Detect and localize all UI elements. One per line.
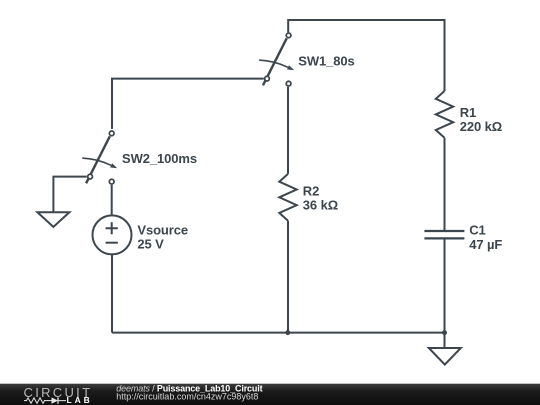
svg-text:R1: R1 [460, 105, 476, 120]
wire from SW1 pivot to SW2 top terminal [112, 79, 264, 129]
wire from SW1 top terminal to R1 top (top net) [288, 20, 444, 91]
svg-text:25 V: 25 V [137, 237, 164, 252]
CircuitLab logo text LAB [67, 395, 93, 405]
ground (left) [37, 212, 69, 227]
CircuitLab logo schematic (resistor + diode) [24, 397, 66, 403]
label R1 [460, 105, 476, 120]
footer url line [116, 391, 258, 401]
wire from SW2 bottom terminal to Vsource top [111, 185, 113, 216]
junction node at C1 / ground / bottom net [442, 330, 447, 335]
value 47 uF [469, 237, 502, 252]
wire from SW2 pivot to left ground [53, 177, 86, 213]
label C1 [469, 223, 485, 238]
label SW1_80s [298, 54, 354, 69]
label R2 [303, 184, 319, 199]
value 220 kOhm [460, 119, 502, 134]
value 36 kOhm [303, 197, 338, 212]
junction node at R2 / bottom net [285, 330, 290, 335]
svg-text:R2: R2 [303, 184, 319, 199]
bottom net wire [112, 332, 445, 334]
resistor R2 [279, 174, 296, 221]
label SW2_100ms [122, 151, 197, 166]
svg-text:36 kΩ: 36 kΩ [303, 197, 338, 212]
switch SW1 [259, 33, 294, 86]
switch SW2 [82, 131, 117, 184]
svg-text:SW2_100ms: SW2_100ms [122, 151, 197, 166]
footer bar [0, 384, 540, 405]
wire from R1 bottom to C1 top [444, 138, 446, 231]
voltage source Vsource [93, 215, 132, 254]
svg-text:C1: C1 [469, 223, 485, 238]
svg-text:Vsource: Vsource [137, 223, 188, 238]
wire from C1 bottom to bottom net [444, 238, 446, 332]
capacitor C1 [424, 231, 464, 238]
resistor R1 [436, 91, 453, 138]
wire from Vsource bottom to bottom net [111, 254, 113, 332]
footer credit line [116, 383, 262, 393]
svg-text:LAB: LAB [67, 395, 93, 405]
wire from bottom net to right ground [444, 333, 446, 348]
svg-text:47 µF: 47 µF [469, 237, 502, 252]
svg-text:http://circuitlab.com/cn4zw7c9: http://circuitlab.com/cn4zw7c98y6t8 [116, 391, 258, 401]
label Vsource [137, 223, 188, 238]
wire from SW1 bottom terminal to R2 top [287, 87, 289, 174]
CircuitLab logo text CIRCUIT [24, 385, 93, 400]
ground (right) [429, 348, 461, 365]
wire from R2 bottom to bottom net [287, 221, 289, 333]
svg-text:220 kΩ: 220 kΩ [460, 119, 502, 134]
svg-text:SW1_80s: SW1_80s [298, 54, 354, 69]
value 25 V [137, 237, 164, 252]
